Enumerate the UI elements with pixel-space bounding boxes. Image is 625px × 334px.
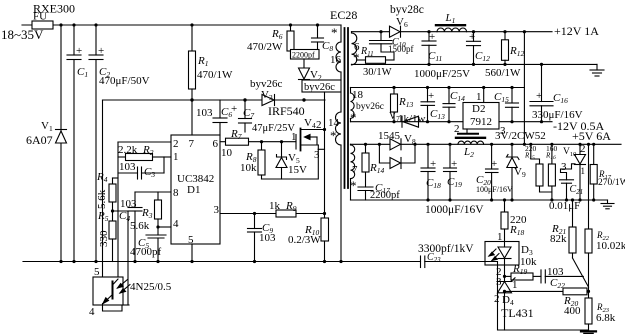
primary winding 14 [340, 92, 342, 112]
resistor R23 [585, 298, 592, 324]
resistor R16 [551, 144, 553, 164]
primary winding 16 [340, 25, 342, 42]
(same as R1 bottom lead) [191, 100, 193, 135]
junction dots [190, 98, 193, 101]
capacitor C3 [118, 172, 138, 174]
LED light arrows [489, 249, 496, 256]
svg-text:1000μF/16V: 1000μF/16V [425, 204, 484, 216]
capacitor C17 [358, 186, 373, 188]
secondary winding 18 [350, 88, 352, 94]
svg-text:2200pf: 2200pf [370, 190, 400, 201]
svg-text:+12V 1A: +12V 1A [554, 24, 599, 38]
svg-text:3: 3 [561, 161, 567, 173]
resistor R18 [504, 200, 506, 212]
wire clamp to drain [324, 92, 326, 130]
svg-text:6.8k: 6.8k [596, 312, 616, 324]
wire R19 C22 row [505, 275, 512, 277]
svg-text:1: 1 [476, 91, 482, 103]
svg-text:8: 8 [173, 187, 179, 199]
svg-text:byv26c: byv26c [304, 82, 335, 93]
svg-text:byv26c: byv26c [356, 102, 384, 112]
capacitor C10 [380, 32, 382, 41]
wire TL431 bottom [505, 329, 589, 331]
transistor inside opto [112, 282, 114, 299]
zener V5 [281, 142, 283, 157]
resistor R1 [191, 25, 193, 51]
resistor R9 [276, 210, 296, 217]
wire pin 1 [164, 156, 171, 158]
op-amp U1 UC3842 box [171, 135, 220, 244]
diode V3 [262, 95, 274, 106]
svg-text:FU: FU [33, 11, 47, 23]
svg-text:47μF/25V: 47μF/25V [252, 123, 295, 134]
capacitor C5 [157, 227, 159, 235]
resistor R7 [226, 138, 249, 145]
capacitor C8 [317, 25, 319, 38]
svg-text:103: 103 [259, 232, 276, 244]
inductor L2 [456, 137, 485, 139]
wire R20 row [505, 290, 564, 292]
wire V1 branch [60, 25, 62, 262]
svg-text:6A07: 6A07 [26, 133, 53, 147]
capacitor C16 [541, 64, 543, 101]
fuse FU [32, 21, 53, 29]
-12V bottom wire right [499, 121, 552, 123]
wire R4 R5 junction to opto pin4 [113, 211, 129, 305]
transistor Q IRF540 [295, 135, 297, 150]
ground symbol +12V [596, 64, 598, 70]
secondary winding 7 [350, 143, 352, 146]
svg-text:3V/2CW52: 3V/2CW52 [495, 130, 546, 142]
resistor R8 [261, 142, 263, 150]
svg-text:1k: 1k [269, 200, 281, 212]
capacitor C15 [511, 88, 513, 104]
diode V8 a [390, 139, 401, 150]
capacitor C13 [427, 88, 429, 102]
wire pin 2 [118, 141, 171, 143]
resistor R2 [118, 156, 126, 158]
svg-text:4: 4 [89, 306, 95, 318]
svg-text:10: 10 [221, 147, 233, 159]
svg-text:18~35V: 18~35V [1, 27, 44, 42]
svg-text:0.2/3W: 0.2/3W [288, 234, 321, 246]
wire +5V sense riser [588, 144, 590, 229]
svg-text:1: 1 [173, 151, 179, 163]
wire pin 8 [135, 191, 171, 193]
+5V rail [351, 143, 622, 145]
capacitor C18 [427, 144, 429, 168]
regulator D2 7912 box [463, 103, 499, 130]
svg-text:IRF540: IRF540 [268, 104, 305, 118]
transformer T1 EC28 core [344, 28, 346, 188]
svg-text:byv28c: byv28c [390, 4, 424, 16]
svg-text:3: 3 [496, 276, 502, 288]
svg-text:+: + [428, 90, 434, 102]
capacitor C6 [219, 100, 221, 118]
svg-text:5: 5 [188, 234, 194, 246]
svg-text:560/1W: 560/1W [485, 67, 521, 79]
svg-text:EC28: EC28 [330, 8, 357, 22]
svg-text:2: 2 [316, 119, 322, 131]
diode V2 [303, 59, 305, 68]
svg-text:2: 2 [494, 293, 500, 305]
capacitor C4 [134, 192, 136, 208]
capacitor C1 [73, 25, 75, 55]
wire D2 pin1 [483, 88, 485, 103]
optocoupler LED D3 box [485, 242, 519, 266]
resistor R21 [572, 200, 574, 227]
resistor R17 [593, 144, 595, 164]
zener V9 [511, 144, 513, 157]
resistor R12 [504, 32, 506, 40]
svg-text:470/1W: 470/1W [197, 69, 233, 81]
wire D2 pin2 [466, 129, 468, 133]
svg-text:7912: 7912 [470, 116, 492, 128]
svg-text:1: 1 [291, 131, 297, 143]
opto LED light arrows [118, 280, 128, 289]
svg-text:*: * [350, 178, 357, 193]
svg-text:470μF/50V: 470μF/50V [99, 75, 150, 87]
wire opto bottom stub [123, 304, 129, 306]
svg-text:0.01μF: 0.01μF [549, 200, 580, 212]
wire pin 3 current sense [220, 213, 276, 215]
thyristor V10 [579, 144, 581, 154]
wire C10 to R11 [381, 44, 394, 60]
svg-text:+: + [98, 45, 104, 57]
resistor R6 [290, 25, 292, 31]
svg-text:*: * [330, 128, 337, 143]
svg-text:15V: 15V [288, 164, 307, 176]
resistor R20 [563, 288, 587, 295]
svg-text:103: 103 [120, 198, 137, 210]
+12V rail [352, 31, 553, 33]
resistor R4 [113, 177, 119, 179]
svg-text:1: 1 [581, 166, 586, 176]
svg-text:4: 4 [173, 218, 179, 230]
svg-text:1: 1 [512, 279, 518, 291]
svg-text:3: 3 [214, 204, 220, 216]
inductor L1 [436, 24, 465, 26]
svg-text:TL431: TL431 [501, 306, 534, 320]
svg-text:+: + [430, 158, 436, 170]
resistor R15 [531, 144, 540, 164]
svg-text:103: 103 [196, 107, 213, 119]
capacitor C21 [561, 164, 576, 180]
capacitor C9 [254, 214, 256, 229]
svg-text:1k/1w: 1k/1w [398, 113, 426, 125]
svg-text:2: 2 [454, 123, 460, 135]
wire left riser to opto collector [117, 142, 119, 277]
svg-text:10k: 10k [240, 162, 257, 174]
svg-text:82k: 82k [550, 233, 567, 245]
wire +12V to +5V crossing link [523, 32, 525, 145]
svg-text:5.6k: 5.6k [96, 189, 108, 209]
svg-text:4N25/0.5: 4N25/0.5 [130, 281, 172, 293]
capacitor C20 [491, 144, 493, 169]
svg-text:7: 7 [189, 138, 195, 150]
svg-text:2: 2 [580, 143, 586, 155]
-12V top wire [351, 87, 525, 89]
capacitor C22 [540, 270, 542, 283]
svg-text:10.02k: 10.02k [596, 240, 625, 252]
svg-text:4700pf: 4700pf [130, 246, 162, 258]
capacitor C19 [449, 144, 451, 168]
svg-text:D2: D2 [472, 103, 485, 115]
resistor R11 [366, 57, 386, 64]
svg-text:100μF/16V: 100μF/16V [476, 185, 513, 194]
secondary winding 6 [351, 32, 353, 33]
svg-text:30/1W: 30/1W [363, 67, 392, 78]
svg-text:2200pf: 2200pf [292, 51, 315, 60]
wire pin 5 [191, 244, 193, 262]
svg-text:+: + [536, 90, 542, 102]
wire +12V ground [352, 63, 598, 65]
svg-text:+5V 6A: +5V 6A [572, 129, 611, 143]
svg-text:+: + [491, 158, 497, 170]
svg-text:5: 5 [94, 266, 100, 278]
value box byv26c V2 [302, 80, 341, 92]
svg-text:103: 103 [119, 161, 136, 173]
shunt regulator D4 TL431 [504, 276, 506, 281]
diode V1 [56, 129, 67, 131]
-12V bottom wire left [351, 121, 464, 123]
capacitor C2 [95, 25, 97, 55]
svg-text:5.6k: 5.6k [130, 220, 150, 232]
svg-text:2: 2 [173, 138, 179, 150]
wire primary return [340, 145, 342, 262]
svg-text:1: 1 [497, 231, 503, 243]
svg-text:330: 330 [98, 230, 110, 247]
wire Vcc node [103, 99, 326, 101]
wire R21 diagonal [573, 258, 589, 287]
capacitor C7 [244, 100, 246, 119]
capacitor C12 [473, 32, 475, 42]
resistor R10 [321, 218, 329, 241]
svg-text:1000μF/25V: 1000μF/25V [414, 68, 470, 80]
svg-text:+: + [429, 31, 435, 43]
ground symbol bottom right [588, 330, 590, 331]
svg-text:D1: D1 [187, 184, 200, 196]
svg-text:1545: 1545 [378, 130, 401, 142]
resistor R22 [585, 229, 592, 253]
wire opto pin4 loop [103, 304, 123, 312]
svg-text:470/2W: 470/2W [247, 41, 283, 53]
optocoupler 4N25 box [93, 277, 123, 305]
diode V8 b parallel loop [379, 144, 390, 163]
svg-text:*: * [350, 110, 357, 125]
ground symbol +5V [607, 200, 609, 204]
capacitor C11 [428, 32, 430, 41]
svg-text:3: 3 [314, 149, 320, 161]
resistor R5 [109, 221, 116, 239]
svg-text:+: + [76, 45, 82, 57]
resistor R14 [365, 144, 367, 153]
wire pin 6 gate [220, 141, 226, 143]
resistor R13 [393, 88, 395, 95]
svg-text:+: + [469, 31, 475, 43]
diode V7 [401, 116, 403, 127]
wire opto pin5 riser [102, 100, 104, 277]
resistor R19 [511, 273, 533, 280]
capacitor C14 [448, 88, 450, 104]
svg-text:270/1W: 270/1W [598, 178, 625, 188]
svg-text:16: 16 [330, 54, 342, 66]
wire gate return [262, 149, 319, 179]
svg-text:+: + [451, 158, 457, 170]
svg-text:7: 7 [352, 164, 358, 176]
+5V ground wire [351, 199, 608, 201]
svg-text:1500pf: 1500pf [388, 44, 414, 54]
diode V6 [390, 26, 401, 37]
svg-text:400: 400 [564, 305, 581, 317]
svg-text:*: * [331, 25, 338, 40]
wire drain node to R10 to rail [324, 130, 326, 219]
wire top rail [22, 24, 341, 26]
capacitor C23 [341, 261, 421, 263]
svg-text:2.2k: 2.2k [118, 144, 138, 156]
wire bottom rail [23, 261, 340, 263]
resistor R3 [157, 192, 159, 200]
svg-text:*: * [353, 50, 360, 65]
diode LED D3 [504, 242, 506, 248]
svg-text:+: + [231, 103, 237, 115]
wire pin 4 [158, 226, 171, 228]
svg-text:6: 6 [213, 138, 219, 150]
value box 2200pf [291, 50, 320, 60]
svg-text:18: 18 [352, 89, 364, 101]
